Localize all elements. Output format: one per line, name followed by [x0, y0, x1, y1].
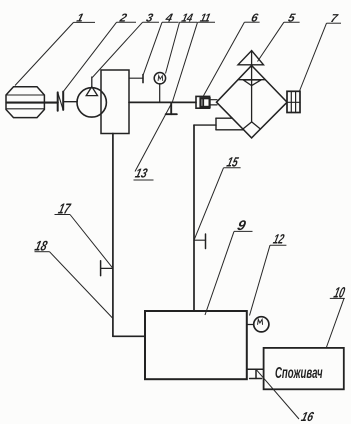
- shaft wire motor to coupling: [7, 102, 58, 104]
- shaft wire coupling to pump: [63, 101, 77, 103]
- leader 7: [300, 23, 342, 91]
- svg-text:Споживач: Споживач: [275, 363, 323, 381]
- leader 17: [55, 215, 113, 269]
- gauge 14 stem wire: [159, 84, 161, 102]
- plug 7 (grid): [287, 91, 300, 112]
- quick coupling 6: [196, 96, 217, 108]
- pump 3 (circle with triangle): [77, 77, 106, 117]
- gauge 12 (M circle): [254, 317, 269, 332]
- wire port box to down pipe: [194, 124, 216, 126]
- main pressure wire block to filter: [129, 101, 196, 103]
- coupling 2 (N symbol): [58, 92, 64, 111]
- valve 16 drain: [250, 369, 262, 378]
- leader 15: [194, 168, 241, 240]
- electric motor 1 (octagon): [6, 87, 44, 118]
- left down pipe wire: [112, 134, 114, 337]
- wire elbow into tank: [113, 335, 145, 337]
- gauge 12 stub wire: [247, 324, 254, 326]
- tank 9: [145, 311, 247, 379]
- pump housing block: [101, 70, 129, 134]
- right down pipe wire: [193, 125, 195, 311]
- valve 16 link wire: [247, 368, 264, 370]
- leader 12: [250, 245, 287, 315]
- leader 3: [92, 22, 159, 77]
- leader 2: [63, 22, 136, 91]
- leader 13: [134, 104, 172, 180]
- pressure gauge 14 (M circle): [154, 73, 165, 84]
- leader 14: [166, 22, 198, 73]
- leader 18: [35, 252, 113, 318]
- leader 16: [256, 369, 299, 419]
- plugged port 4: [129, 75, 143, 83]
- consumer 10 box: [264, 348, 344, 389]
- leader 6: [204, 22, 260, 96]
- leader 5: [258, 22, 300, 61]
- leader 10: [326, 298, 345, 348]
- leader 1: [15, 22, 95, 85]
- leader 9: [205, 231, 253, 315]
- leader 4: [143, 22, 178, 75]
- plugged port 17: [101, 261, 113, 276]
- drain symbol 11/13: [166, 102, 177, 114]
- filter 5 (diamond): [217, 51, 288, 138]
- leader 11: [173, 22, 216, 101]
- plugged port 15: [194, 234, 206, 249]
- filter outlet port box: [216, 118, 244, 130]
